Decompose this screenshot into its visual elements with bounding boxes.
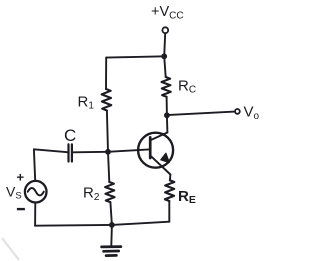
capacitor C right plate [71,144,73,161]
smudge artifact [2,238,19,260]
wire input right segment [73,151,108,154]
transistor Q1 circle [138,133,173,168]
wire bottom rail right [112,222,169,225]
node junction collector [164,112,170,118]
wire base lead [108,149,149,151]
transistor Q1 emitter arrow [161,153,170,162]
wire emitter to RE [169,175,172,181]
node junction top rail [161,53,167,59]
transistor Q1 base bar [149,137,152,158]
resistor RE [165,180,174,201]
node +VCC terminal [162,27,168,33]
wire R1 bottom lead [107,111,108,152]
svg-text:RC: RC [178,77,196,95]
wire RC top lead [164,56,166,77]
svg-text:RE: RE [178,188,196,206]
resistor R1 [102,89,112,111]
wire output to Vo terminal [167,112,235,116]
svg-text:+VCC: +VCC [151,4,184,22]
svg-text:C: C [64,126,76,145]
node junction ground [109,222,115,228]
node Vo terminal [235,109,240,114]
source VS circle [25,181,47,203]
wire R2 top lead [108,152,109,182]
transistor Q1 emitter lead [150,156,170,175]
resistor RC [162,77,171,97]
source VS sine wave [28,188,44,195]
svg-text:Vo: Vo [244,103,260,121]
wire VS top lead [34,149,35,181]
svg-text:R1: R1 [78,93,95,111]
wire collector vertical [166,115,169,132]
node junction base [105,149,111,155]
label minus [17,208,25,210]
resistor R2 [105,182,115,202]
wire RE bottom lead [168,201,170,222]
wire VS bottom lead [34,203,36,226]
wire R1 top lead [105,58,107,89]
wire VCC terminal to top junction [164,33,165,56]
wire ground stub [110,225,113,246]
svg-text:VS: VS [6,183,22,201]
svg-text:R2: R2 [83,185,100,203]
wire top rail [106,56,164,57]
svg-text:+: + [17,170,25,185]
transistor Q1 collector lead [150,133,167,141]
wire input left segment [34,149,68,152]
wire bottom rail left [35,224,112,227]
capacitor C left plate [67,144,69,161]
ground symbol [102,247,121,256]
wire R2 bottom lead [110,202,112,225]
wire RC bottom lead [166,97,168,116]
